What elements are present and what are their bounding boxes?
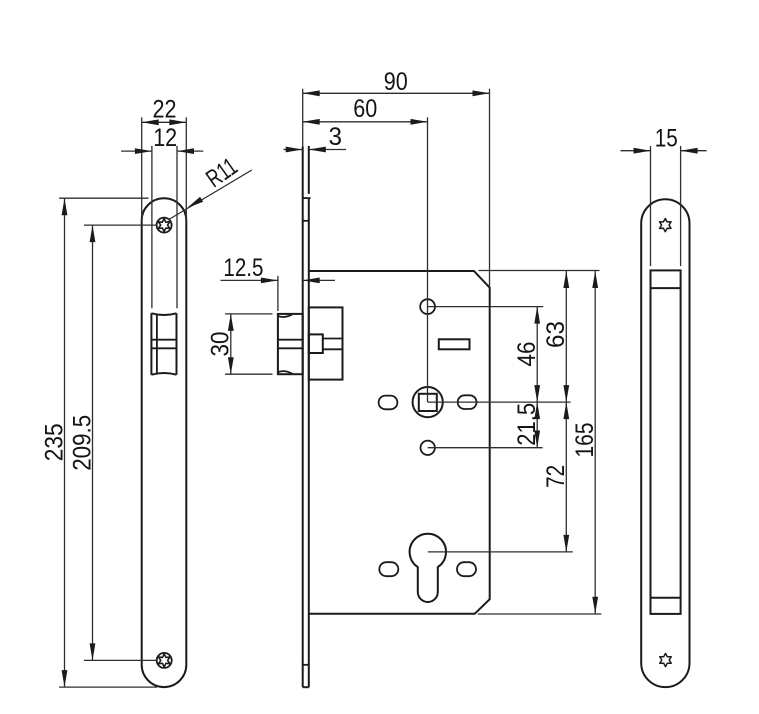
svg-text:3: 3 [329, 123, 343, 151]
svg-text:12: 12 [153, 124, 177, 152]
svg-text:22: 22 [153, 96, 177, 124]
svg-text:60: 60 [353, 95, 377, 123]
svg-text:15: 15 [655, 124, 678, 152]
svg-text:30: 30 [207, 332, 235, 357]
svg-text:46: 46 [513, 342, 541, 367]
svg-text:21.5: 21.5 [513, 403, 541, 446]
svg-text:90: 90 [384, 68, 408, 96]
svg-text:209.5: 209.5 [68, 415, 96, 471]
svg-text:165: 165 [571, 423, 599, 458]
svg-text:235: 235 [40, 423, 68, 461]
svg-text:63: 63 [542, 321, 570, 348]
svg-text:72: 72 [542, 465, 570, 488]
svg-text:12.5: 12.5 [223, 254, 263, 282]
